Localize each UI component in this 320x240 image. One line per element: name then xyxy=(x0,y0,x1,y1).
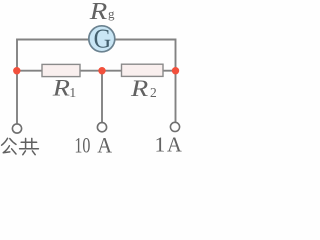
svg-text:2: 2 xyxy=(150,85,157,100)
svg-text:R: R xyxy=(89,0,108,25)
svg-text:A: A xyxy=(97,133,112,157)
svg-text:R: R xyxy=(130,76,148,102)
svg-text:10: 10 xyxy=(74,133,90,157)
svg-text:1: 1 xyxy=(69,86,76,101)
svg-text:R: R xyxy=(52,75,70,101)
svg-text:g: g xyxy=(108,6,115,21)
svg-text:A: A xyxy=(167,133,182,157)
svg-text:G: G xyxy=(94,24,112,54)
svg-text:1: 1 xyxy=(155,133,166,157)
